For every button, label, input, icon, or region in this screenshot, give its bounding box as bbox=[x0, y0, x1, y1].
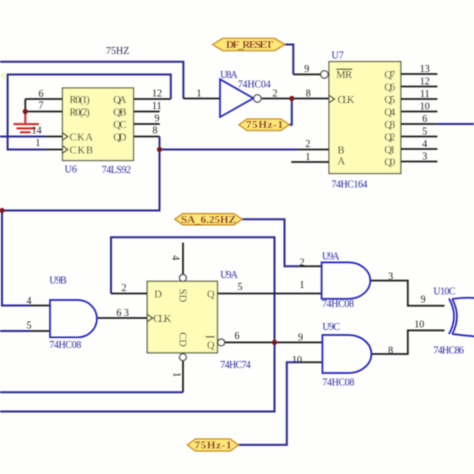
svg-text:U9A: U9A bbox=[220, 270, 238, 281]
svg-text:10: 10 bbox=[420, 102, 430, 113]
svg-text:U6: U6 bbox=[65, 165, 77, 176]
svg-text:11: 11 bbox=[420, 89, 430, 100]
svg-text:9: 9 bbox=[421, 294, 426, 305]
svg-text:4: 4 bbox=[169, 255, 180, 260]
svg-text:Q7: Q7 bbox=[384, 70, 395, 81]
svg-text:74HC08: 74HC08 bbox=[49, 340, 81, 351]
svg-text:1: 1 bbox=[197, 88, 202, 99]
svg-text:1: 1 bbox=[170, 372, 181, 377]
svg-text:10: 10 bbox=[292, 355, 302, 366]
svg-text:2: 2 bbox=[122, 283, 127, 294]
svg-text:75HZ: 75HZ bbox=[106, 46, 129, 57]
svg-text:D: D bbox=[154, 289, 162, 300]
svg-text:Q1: Q1 bbox=[384, 145, 395, 156]
svg-text:75Hz-1: 75Hz-1 bbox=[195, 440, 232, 452]
svg-text:QA: QA bbox=[113, 95, 127, 106]
svg-text:SD: SD bbox=[176, 289, 187, 303]
svg-text:74HC86: 74HC86 bbox=[433, 345, 464, 356]
svg-text:6: 6 bbox=[116, 308, 121, 319]
svg-text:6: 6 bbox=[235, 331, 240, 342]
svg-text:1: 1 bbox=[300, 280, 305, 291]
svg-text:U8A: U8A bbox=[220, 70, 238, 81]
svg-text:R0(2): R0(2) bbox=[70, 107, 91, 118]
svg-text:5: 5 bbox=[27, 321, 32, 332]
svg-text:SA_6.25HZ: SA_6.25HZ bbox=[181, 214, 236, 226]
svg-text:QD: QD bbox=[113, 132, 127, 143]
svg-text:U9B: U9B bbox=[49, 276, 67, 287]
svg-text:R0(1): R0(1) bbox=[70, 95, 91, 106]
svg-text:3: 3 bbox=[422, 151, 427, 162]
svg-text:Q5: Q5 bbox=[384, 95, 395, 106]
svg-text:6: 6 bbox=[422, 114, 427, 125]
svg-text:Q: Q bbox=[207, 289, 215, 300]
svg-text:74HC08: 74HC08 bbox=[322, 299, 354, 310]
svg-text:5: 5 bbox=[238, 282, 243, 293]
svg-text:11: 11 bbox=[152, 101, 162, 112]
svg-text:3: 3 bbox=[388, 271, 393, 282]
svg-text:74HC08: 74HC08 bbox=[322, 378, 354, 389]
svg-text:8: 8 bbox=[153, 126, 158, 137]
svg-text:QC: QC bbox=[113, 120, 126, 131]
svg-text:74HC164: 74HC164 bbox=[332, 179, 368, 190]
svg-text:74HC04: 74HC04 bbox=[238, 80, 271, 91]
svg-text:Q2: Q2 bbox=[384, 132, 395, 143]
svg-text:U7: U7 bbox=[332, 51, 344, 62]
svg-text:3: 3 bbox=[124, 308, 129, 319]
svg-text:8: 8 bbox=[306, 88, 311, 99]
svg-text:B: B bbox=[338, 145, 345, 156]
svg-text:CKA: CKA bbox=[70, 132, 94, 143]
svg-text:5: 5 bbox=[422, 126, 427, 137]
svg-text:CLK: CLK bbox=[338, 95, 355, 106]
svg-text:U9A: U9A bbox=[322, 251, 340, 262]
svg-text:A: A bbox=[338, 157, 346, 168]
svg-text:75Hz-1: 75Hz-1 bbox=[246, 119, 283, 131]
svg-text:MR: MR bbox=[336, 70, 352, 81]
svg-text:2: 2 bbox=[305, 139, 310, 150]
svg-text:QB: QB bbox=[113, 107, 126, 118]
svg-text:9: 9 bbox=[155, 113, 160, 124]
svg-text:9: 9 bbox=[298, 333, 303, 344]
svg-text:Q6: Q6 bbox=[384, 82, 395, 93]
svg-text:CKB: CKB bbox=[70, 145, 94, 156]
svg-text:8: 8 bbox=[388, 345, 393, 356]
svg-text:1: 1 bbox=[305, 152, 310, 163]
svg-text:13: 13 bbox=[420, 64, 430, 75]
svg-text:1: 1 bbox=[35, 138, 40, 149]
svg-text:Q: Q bbox=[207, 341, 215, 352]
svg-text:6: 6 bbox=[39, 89, 44, 100]
svg-text:12: 12 bbox=[152, 88, 162, 99]
svg-text:2: 2 bbox=[300, 257, 305, 268]
svg-text:7: 7 bbox=[39, 101, 44, 112]
svg-text:10: 10 bbox=[414, 319, 424, 330]
svg-text:Q4: Q4 bbox=[384, 107, 396, 118]
svg-text:4: 4 bbox=[27, 296, 32, 307]
svg-text:Q3: Q3 bbox=[384, 120, 395, 131]
svg-text:DF_RESET: DF_RESET bbox=[226, 39, 274, 51]
svg-text:U10C: U10C bbox=[433, 286, 455, 297]
svg-text:Q0: Q0 bbox=[384, 157, 395, 168]
svg-text:12: 12 bbox=[420, 77, 430, 88]
svg-text:2: 2 bbox=[273, 88, 278, 99]
svg-text:4: 4 bbox=[422, 139, 427, 150]
svg-text:9: 9 bbox=[304, 64, 309, 75]
svg-text:74HC74: 74HC74 bbox=[220, 360, 251, 371]
svg-text:CLK: CLK bbox=[153, 314, 171, 325]
svg-text:74LS92: 74LS92 bbox=[102, 165, 131, 176]
svg-text:U9C: U9C bbox=[322, 322, 340, 333]
svg-text:14: 14 bbox=[32, 125, 42, 136]
svg-text:CD: CD bbox=[176, 332, 187, 347]
